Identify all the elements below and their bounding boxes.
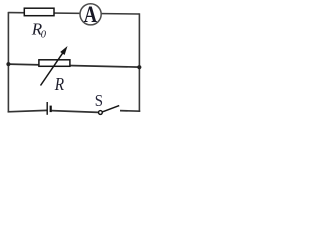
rheostat R arrow shaft xyxy=(41,52,64,85)
resistor R0 box xyxy=(24,8,54,16)
wire: bottom right segment xyxy=(120,110,140,113)
wire: left vertical xyxy=(7,12,9,113)
wire: bottom left segment xyxy=(8,110,47,111)
switch S lever xyxy=(102,106,119,112)
rheostat R arrow head xyxy=(60,46,67,55)
wire: right vertical xyxy=(138,13,140,112)
wire: top horizontal xyxy=(8,13,139,14)
switch S pivot circle xyxy=(99,111,103,115)
svg-text:S: S xyxy=(95,92,103,110)
svg-text:R: R xyxy=(54,74,64,94)
rheostat R box xyxy=(39,60,70,67)
svg-text:0: 0 xyxy=(41,29,47,40)
battery B1 negative plate xyxy=(50,106,52,113)
ammeter U1 circle xyxy=(80,4,101,25)
battery B1 positive plate xyxy=(46,102,48,115)
svg-text:A: A xyxy=(84,1,97,28)
wire: bottom middle segment xyxy=(52,111,99,113)
node: left junction xyxy=(6,62,10,66)
node: right junction xyxy=(137,65,141,69)
wire: middle horizontal xyxy=(8,64,139,67)
